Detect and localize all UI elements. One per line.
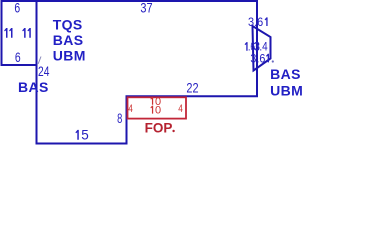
small left annex rectangle — [2, 1, 37, 65]
FOP dimension 10 upper — [150, 97, 153, 105]
svg-text:BAS: BAS — [53, 32, 84, 48]
svg-text:5: 5 — [81, 128, 89, 143]
svg-text:3.4: 3.4 — [254, 41, 268, 53]
bay dimension 1.63 left — [245, 42, 248, 51]
svg-text:0: 0 — [155, 105, 161, 117]
svg-text:8: 8 — [117, 111, 122, 126]
FOP red rectangle — [128, 97, 187, 118]
svg-text:3.6: 3.6 — [250, 53, 265, 65]
svg-text:UBM: UBM — [53, 47, 86, 63]
svg-text:4: 4 — [128, 103, 133, 115]
svg-text:BAS: BAS — [270, 66, 301, 82]
dimension 11 (annex right) — [22, 28, 31, 38]
svg-text:24: 24 — [38, 64, 50, 79]
svg-text:37: 37 — [140, 1, 152, 16]
svg-text:22: 22 — [186, 81, 198, 96]
period after FOP — [172, 130, 174, 132]
dot after bottom 3.61 — [272, 60, 274, 62]
svg-text:FOP: FOP — [145, 121, 173, 136]
main building outline — [37, 1, 258, 144]
dimension 15 (bottom edge) — [75, 130, 78, 140]
svg-text:TQS: TQS — [53, 16, 83, 32]
svg-text:4: 4 — [178, 103, 183, 115]
FOP dimension 10 lower — [150, 106, 153, 114]
svg-text:3.6: 3.6 — [248, 17, 263, 29]
svg-text:6: 6 — [14, 1, 20, 16]
bay parallelogram on right wall — [253, 26, 271, 71]
svg-text:UBM: UBM — [270, 82, 303, 98]
dimension 11 (annex left) — [4, 28, 12, 38]
svg-text:6: 6 — [15, 50, 21, 65]
tick mark near 24 — [38, 57, 41, 64]
svg-text:BAS: BAS — [18, 79, 49, 95]
